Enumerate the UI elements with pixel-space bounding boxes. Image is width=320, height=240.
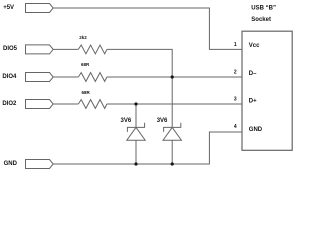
svg-text:D+: D+	[249, 98, 257, 104]
svg-text:Vcc: Vcc	[249, 43, 260, 49]
svg-text:68R: 68R	[81, 62, 90, 67]
svg-text:D–: D–	[249, 71, 257, 77]
svg-text:1: 1	[234, 42, 237, 48]
svg-text:+5V: +5V	[3, 5, 14, 11]
svg-text:GND: GND	[4, 161, 18, 167]
svg-text:68R: 68R	[82, 90, 91, 95]
svg-text:3V6: 3V6	[157, 118, 168, 124]
svg-text:Socket: Socket	[251, 17, 271, 23]
svg-text:3: 3	[234, 96, 237, 102]
svg-text:DIO5: DIO5	[3, 46, 18, 52]
svg-text:3V6: 3V6	[121, 118, 132, 124]
svg-text:2: 2	[234, 70, 237, 76]
svg-text:DIO2: DIO2	[2, 101, 17, 107]
svg-text:DIO4: DIO4	[2, 74, 17, 80]
svg-text:USB “B”: USB “B”	[251, 6, 276, 12]
svg-text:4: 4	[234, 124, 237, 130]
svg-text:2k2: 2k2	[79, 35, 87, 40]
svg-text:GND: GND	[249, 127, 263, 133]
